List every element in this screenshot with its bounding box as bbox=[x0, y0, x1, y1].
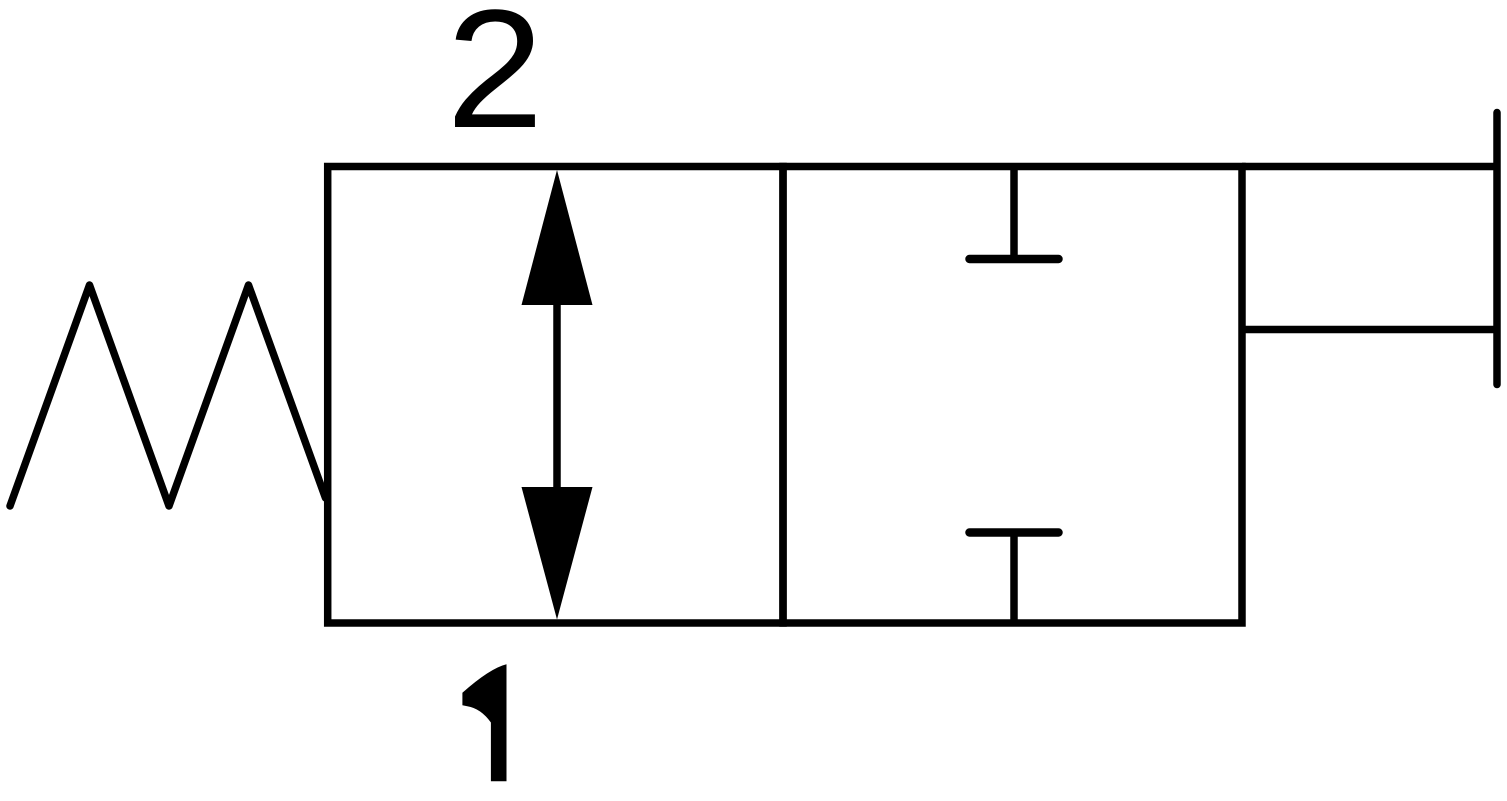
actuator lower line bbox=[1242, 326, 1497, 334]
valve box right square bbox=[783, 167, 1242, 624]
svg-text:2: 2 bbox=[446, 0, 544, 163]
arrowhead down bbox=[522, 487, 593, 620]
port label 1 bbox=[462, 664, 506, 781]
actuator pin bbox=[1493, 113, 1501, 385]
wire top extension to actuator bbox=[1242, 163, 1497, 171]
arrowhead up bbox=[522, 170, 593, 305]
valve box left square bbox=[328, 167, 783, 624]
blocked port bottom bar bbox=[970, 528, 1059, 537]
blocked port bottom stem bbox=[1010, 533, 1018, 624]
blocked port top stem bbox=[1010, 167, 1018, 260]
blocked port top bar bbox=[970, 255, 1059, 264]
spring bbox=[10, 285, 326, 506]
flow path arrow shaft bbox=[553, 303, 561, 489]
